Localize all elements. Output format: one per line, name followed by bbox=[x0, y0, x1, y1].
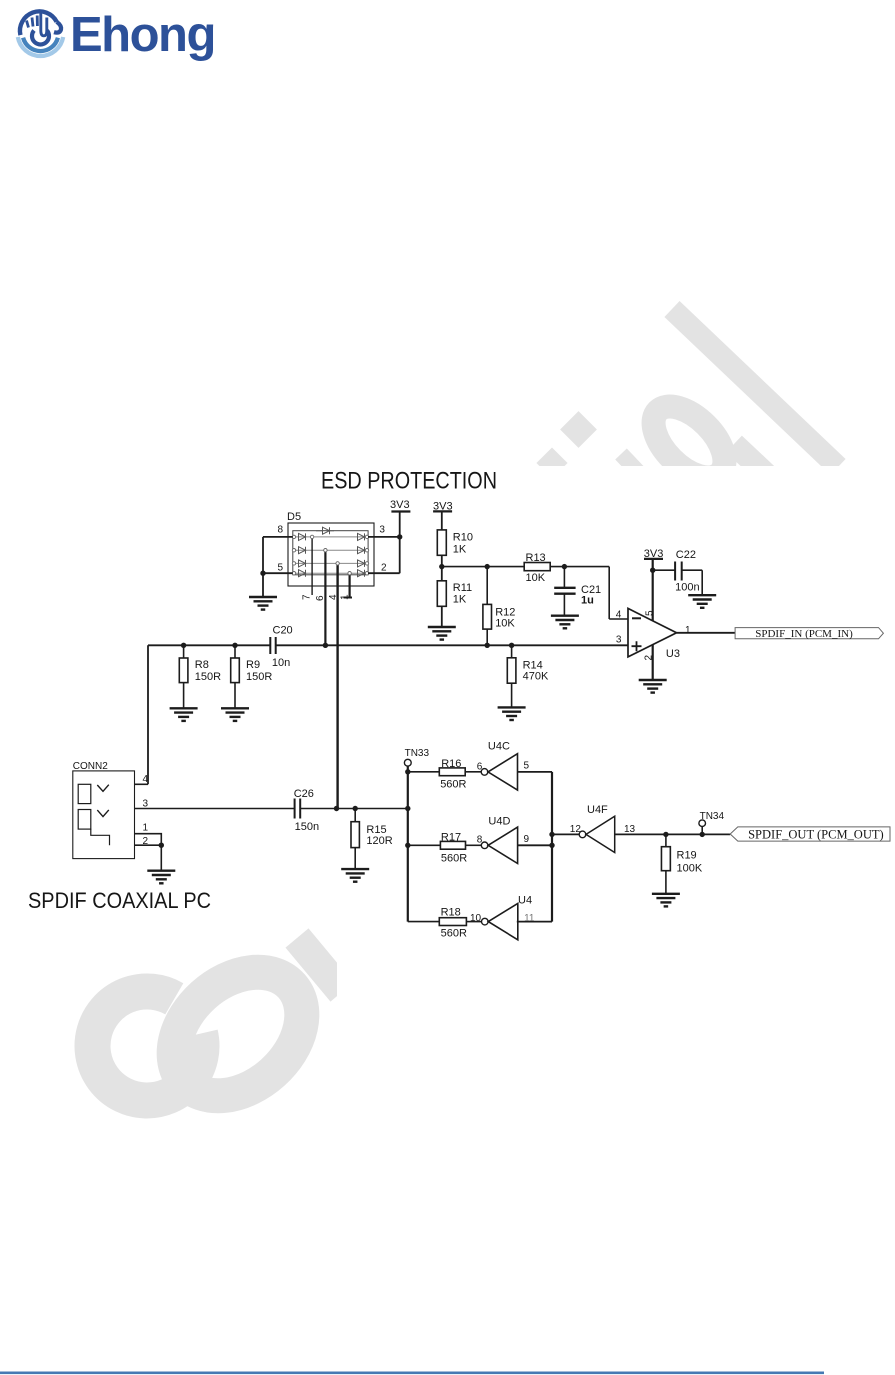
svg-text:SPDIF_IN (PCM_IN): SPDIF_IN (PCM_IN) bbox=[755, 628, 853, 640]
svg-text:U4D: U4D bbox=[488, 816, 510, 828]
svg-text:R18: R18 bbox=[441, 907, 461, 919]
svg-text:150n: 150n bbox=[295, 821, 319, 833]
svg-text:4: 4 bbox=[143, 774, 149, 785]
svg-text:5: 5 bbox=[524, 761, 530, 772]
svg-text:1: 1 bbox=[685, 625, 691, 636]
svg-text:R10: R10 bbox=[453, 532, 473, 544]
svg-text:100K: 100K bbox=[677, 863, 703, 875]
svg-text:4: 4 bbox=[616, 610, 622, 621]
svg-text:R19: R19 bbox=[677, 850, 697, 862]
svg-text:560R: 560R bbox=[440, 779, 466, 791]
svg-text:8: 8 bbox=[477, 835, 483, 846]
svg-text:R15: R15 bbox=[366, 824, 386, 836]
svg-text:C20: C20 bbox=[273, 624, 293, 636]
svg-text:150R: 150R bbox=[195, 671, 221, 683]
svg-text:3V3: 3V3 bbox=[644, 548, 664, 560]
svg-text:2: 2 bbox=[143, 836, 149, 847]
svg-text:D5: D5 bbox=[287, 511, 301, 523]
svg-text:10n: 10n bbox=[272, 657, 290, 669]
svg-text:3V3: 3V3 bbox=[433, 500, 453, 512]
svg-text:CONN2: CONN2 bbox=[73, 761, 108, 772]
svg-text:R16: R16 bbox=[441, 758, 461, 770]
svg-text:100n: 100n bbox=[675, 582, 699, 594]
svg-text:1K: 1K bbox=[453, 593, 467, 605]
svg-text:SPDIF COAXIAL PC: SPDIF COAXIAL PC bbox=[28, 888, 211, 913]
svg-text:R13: R13 bbox=[526, 552, 546, 564]
svg-text:3: 3 bbox=[379, 525, 385, 536]
svg-text:3: 3 bbox=[143, 798, 149, 809]
svg-text:U4: U4 bbox=[518, 895, 532, 907]
svg-text:5: 5 bbox=[277, 563, 283, 574]
svg-text:ESD PROTECTION: ESD PROTECTION bbox=[321, 468, 497, 495]
svg-text:12: 12 bbox=[570, 824, 582, 835]
svg-text:C22: C22 bbox=[676, 549, 696, 561]
svg-text:U4C: U4C bbox=[488, 741, 510, 753]
svg-text:R8: R8 bbox=[195, 659, 209, 671]
svg-text:U4F: U4F bbox=[587, 804, 608, 816]
svg-text:2: 2 bbox=[381, 563, 387, 574]
svg-text:560R: 560R bbox=[441, 928, 467, 940]
svg-text:1K: 1K bbox=[453, 544, 467, 556]
svg-text:TN33: TN33 bbox=[405, 748, 430, 759]
svg-text:R17: R17 bbox=[441, 832, 461, 844]
svg-text:R11: R11 bbox=[453, 582, 472, 594]
svg-text:1: 1 bbox=[340, 594, 351, 600]
svg-text:U3: U3 bbox=[666, 648, 680, 660]
svg-text:R9: R9 bbox=[246, 659, 260, 671]
svg-text:8: 8 bbox=[277, 525, 283, 536]
svg-text:3: 3 bbox=[616, 635, 622, 646]
svg-text:120R: 120R bbox=[366, 835, 392, 847]
svg-text:3V3: 3V3 bbox=[390, 499, 410, 511]
svg-text:4: 4 bbox=[328, 594, 339, 600]
svg-text:C26: C26 bbox=[294, 788, 314, 800]
svg-text:6: 6 bbox=[315, 595, 326, 601]
svg-text:TN34: TN34 bbox=[700, 811, 725, 822]
svg-text:2: 2 bbox=[644, 655, 655, 661]
svg-text:7: 7 bbox=[302, 594, 313, 600]
svg-text:470K: 470K bbox=[523, 670, 549, 682]
svg-text:150R: 150R bbox=[246, 671, 272, 683]
svg-text:1u: 1u bbox=[581, 595, 594, 607]
svg-text:6: 6 bbox=[477, 762, 483, 773]
svg-text:SPDIF_OUT (PCM_OUT): SPDIF_OUT (PCM_OUT) bbox=[748, 828, 884, 842]
svg-text:9: 9 bbox=[524, 834, 530, 845]
svg-text:10K: 10K bbox=[495, 617, 515, 629]
svg-text:1: 1 bbox=[143, 822, 149, 833]
svg-text:13: 13 bbox=[624, 824, 636, 835]
svg-text:Ehong: Ehong bbox=[70, 8, 215, 62]
svg-text:10K: 10K bbox=[526, 572, 546, 584]
svg-text:10: 10 bbox=[470, 913, 482, 924]
svg-text:5: 5 bbox=[644, 610, 655, 616]
svg-text:11: 11 bbox=[524, 913, 535, 924]
svg-text:560R: 560R bbox=[441, 853, 467, 865]
